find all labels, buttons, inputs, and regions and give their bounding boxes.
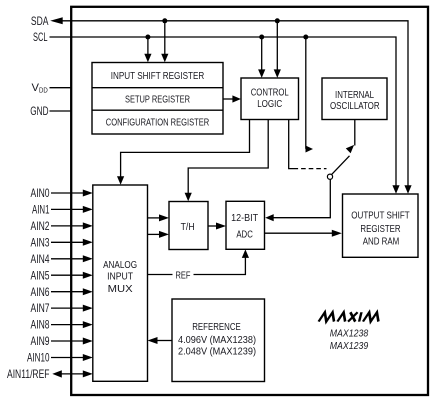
wire AIN5 to mux	[51, 272, 93, 279]
svg-text:AIN11/REF: AIN11/REF	[7, 367, 50, 381]
wire AIN3 to mux	[51, 239, 93, 246]
wire switch common to ADC clock input	[265, 179, 330, 221]
wire AIN10 to mux	[51, 354, 93, 361]
svg-text:SDA: SDA	[31, 14, 49, 28]
svg-text:AIN3: AIN3	[31, 235, 50, 249]
12-bit ADC block	[226, 201, 265, 249]
svg-text:AIN0: AIN0	[31, 186, 50, 200]
svg-text:INPUT: INPUT	[107, 272, 134, 283]
svg-text:12-BIT: 12-BIT	[231, 213, 259, 224]
internal oscillator block	[322, 78, 387, 120]
svg-text:AIN6: AIN6	[31, 285, 50, 299]
junction dot SDA to control logic	[275, 18, 280, 23]
wire AIN2 to mux	[51, 222, 93, 229]
wire AIN6 to mux	[51, 288, 93, 295]
wire AIN8 to mux	[51, 321, 93, 328]
wire SDA down to control logic	[274, 21, 281, 78]
wire SCL down to input shift register	[144, 37, 151, 62]
svg-text:INTERNAL: INTERNAL	[335, 90, 374, 101]
wire mux to T/H (lower)	[148, 231, 170, 238]
wire AIN0 to mux	[51, 190, 93, 197]
clock switch pivot circle	[327, 174, 332, 179]
wire ADC to output shift register	[265, 230, 342, 237]
svg-text:CONTROL: CONTROL	[251, 88, 289, 99]
wire AIN4 to mux	[51, 255, 93, 262]
svg-text:OSCILLATOR: OSCILLATOR	[330, 101, 380, 112]
svg-text:AIN10: AIN10	[27, 351, 50, 365]
svg-text:CONFIGURATION REGISTER: CONFIGURATION REGISTER	[106, 118, 210, 129]
svg-text:OUTPUT SHIFT: OUTPUT SHIFT	[351, 210, 410, 221]
wire SCL bus (label to right side, down to output shift register)	[50, 37, 400, 194]
svg-text:T/H: T/H	[181, 222, 195, 233]
register block: input shift / setup / configuration registers	[92, 63, 223, 135]
clock switch lever with arrowhead	[332, 145, 354, 174]
outer frame	[71, 7, 428, 395]
wire control logic to T/H	[185, 120, 269, 202]
svg-text:SCL: SCL	[33, 30, 48, 44]
svg-text:AIN4: AIN4	[31, 252, 50, 266]
svg-text:AIN5: AIN5	[31, 268, 50, 282]
svg-text:AIN9: AIN9	[31, 334, 50, 348]
wire SDA bus (label to right side, down to output shift register)	[50, 17, 411, 194]
reference block (4.096V / 2.048V)	[172, 299, 265, 382]
wire AIN11/REF to mux (bidirectional)	[52, 370, 93, 377]
svg-text:INPUT SHIFT REGISTER: INPUT SHIFT REGISTER	[111, 71, 205, 82]
svg-text:AIN8: AIN8	[31, 318, 50, 332]
wire GND stub	[50, 110, 72, 112]
svg-text:GND: GND	[30, 104, 48, 118]
svg-text:REF: REF	[176, 270, 191, 281]
wire reference to mux	[148, 337, 173, 344]
wire SCL down to external clock switch contact	[306, 37, 314, 153]
wire SDA down to input shift register	[161, 21, 168, 63]
svg-text:VDD: VDD	[32, 82, 48, 94]
svg-text:AND RAM: AND RAM	[363, 236, 400, 247]
svg-text:LOGIC: LOGIC	[257, 99, 282, 110]
junction dot SDA to input shift register	[162, 18, 167, 23]
svg-text:AIN1: AIN1	[32, 203, 50, 217]
svg-text:ADC: ADC	[236, 229, 253, 240]
junction dot SCL to input shift register	[145, 35, 150, 40]
wire T/H to ADC	[208, 223, 226, 230]
wire AIN1 to mux	[51, 206, 93, 213]
control logic block U-CL	[241, 78, 299, 120]
wire mux REF to ADC reference input	[148, 249, 250, 274]
wire control logic to analog input mux	[117, 120, 250, 185]
wire AIN7 to mux	[51, 305, 93, 312]
svg-text:2.048V (MAX1239): 2.048V (MAX1239)	[178, 347, 256, 358]
svg-text:SETUP REGISTER: SETUP REGISTER	[125, 95, 190, 106]
svg-text:MUX: MUX	[108, 284, 133, 295]
wire mux to T/H (upper)	[148, 214, 170, 221]
svg-text:MAX1239: MAX1239	[330, 340, 369, 352]
wire internal oscillator to switch contact	[354, 120, 356, 146]
wire setup register to control logic	[223, 95, 241, 102]
T/H block	[169, 202, 208, 250]
wire AIN9 to mux	[51, 338, 93, 345]
svg-text:REGISTER: REGISTER	[360, 224, 400, 235]
analog input mux block	[93, 185, 148, 381]
wire VDD stub	[50, 87, 72, 89]
svg-text:REFERENCE: REFERENCE	[192, 322, 241, 333]
wire SCL down to control logic	[258, 37, 265, 78]
svg-text:AIN2: AIN2	[31, 219, 50, 233]
junction dot SCL to clock switch	[303, 35, 308, 40]
output shift register and RAM block	[343, 194, 419, 257]
junction dot SCL to control logic	[259, 35, 264, 40]
svg-text:MAX1238: MAX1238	[330, 328, 369, 340]
wire control logic to switch (dashed select line)	[289, 120, 327, 169]
MAXIM logo	[319, 312, 381, 321]
svg-text:ANALOG: ANALOG	[103, 260, 137, 271]
svg-text:AIN7: AIN7	[31, 301, 50, 315]
svg-text:4.096V (MAX1238): 4.096V (MAX1238)	[178, 335, 256, 346]
